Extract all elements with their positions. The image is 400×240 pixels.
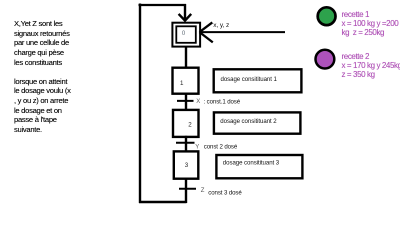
svg-text:Z: Z [201, 188, 205, 194]
wire: left return loop vertical [139, 4, 141, 204]
action box: dosage consitituant 3 [216, 155, 302, 178]
step 0 (initial step, double square) [172, 23, 200, 47]
arrowhead of x,y,z line into step 0 [200, 22, 213, 42]
svg-text:Y: Y [195, 144, 199, 150]
svg-text:const 2 dosé: const 2 dosé [204, 144, 238, 151]
svg-text:const 3 dosé: const 3 dosé [208, 189, 242, 196]
transition T3 tick [179, 188, 196, 190]
svg-text:dosage consitituant 1: dosage consitituant 1 [221, 76, 278, 83]
transition T2 tick [176, 142, 195, 144]
svg-text:2: 2 [188, 121, 192, 128]
label x, y, z [213, 22, 229, 29]
left explanatory text block [14, 19, 71, 134]
label transition 1: X : const.1 dosé [196, 98, 240, 105]
wire: step 2 to step 3 [185, 136, 187, 152]
svg-text:0: 0 [182, 31, 186, 37]
action box: dosage consitituant 1 [214, 69, 302, 92]
svg-text:dosage consitituant 3: dosage consitituant 3 [223, 160, 280, 167]
recipe 1 marker (green circle) [318, 7, 336, 25]
arrowhead into top of step 0 [179, 14, 192, 21]
svg-text:3: 3 [185, 162, 189, 169]
step 3 [174, 151, 199, 178]
svg-text:X: X [196, 99, 200, 105]
svg-text:1: 1 [180, 80, 184, 87]
label transition 3: Z const 3 dosé [201, 188, 243, 196]
recette 2 text [342, 52, 400, 79]
svg-text:: const.1 dosé: : const.1 dosé [204, 98, 241, 105]
recipe 2 marker (purple circle) [316, 50, 335, 69]
svg-text:dosage consitituant 2: dosage consitituant 2 [220, 118, 277, 125]
wire: drop from top loop into step 0 [184, 4, 186, 19]
wire: step 0 to step 1 [185, 47, 187, 69]
wire: step 1 to step 2 [185, 94, 187, 111]
transition T1 tick [177, 100, 194, 102]
label transition 2: Y const 2 dosé [195, 144, 238, 151]
recette 1 text [342, 10, 399, 37]
step 2 [173, 110, 199, 137]
step 1 [173, 68, 199, 94]
svg-text:x, y, z: x, y, z [213, 22, 229, 29]
wire: bottom horizontal of return loop [139, 201, 187, 203]
wire: x,y,z input line [200, 31, 285, 33]
wire: top horizontal of return loop [139, 4, 187, 6]
action box: dosage consitituant 2 [214, 112, 301, 133]
wire: vertical below step 3 to bottom loop [185, 178, 187, 203]
